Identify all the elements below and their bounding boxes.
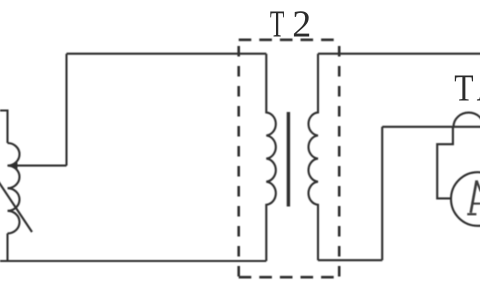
arrow shaft diagonal through coil bbox=[0, 181, 32, 232]
wire right riser bbox=[381, 127, 383, 260]
label A (ammeter, italic, cut by right edge) bbox=[467, 181, 480, 215]
ammeter A circle (cut off at right edge) bbox=[451, 172, 480, 226]
wiper arrowhead bbox=[7, 162, 18, 168]
T2 dashed enclosure box bbox=[239, 40, 340, 277]
wire TA secondary branch to ammeter bbox=[437, 127, 453, 199]
wire top-left stub into left edge bbox=[0, 111, 8, 144]
autotransformer coil L1 (cut off at left edge) bbox=[8, 143, 20, 233]
transformer T2 secondary winding bbox=[308, 54, 318, 261]
wire top rail to T2 primary bbox=[67, 53, 267, 55]
svg-text:A: A bbox=[477, 67, 480, 109]
svg-text:T: T bbox=[270, 4, 285, 46]
wire tap up to top rail bbox=[65, 54, 67, 166]
transformer T2 primary winding bbox=[266, 54, 276, 261]
wire bottom rail right bbox=[318, 259, 382, 261]
current transformer TA winding arc bbox=[454, 113, 480, 127]
wire bottom rail left bbox=[0, 260, 266, 262]
svg-text:2: 2 bbox=[292, 4, 311, 46]
wire TA primary conductor bbox=[382, 126, 480, 128]
transformer core bar bbox=[287, 112, 290, 207]
wire coil bottom stub bbox=[6, 233, 8, 261]
svg-text:T: T bbox=[454, 67, 473, 109]
wiper arrow tap line bbox=[15, 165, 67, 167]
wire top rail right to edge bbox=[318, 53, 480, 55]
